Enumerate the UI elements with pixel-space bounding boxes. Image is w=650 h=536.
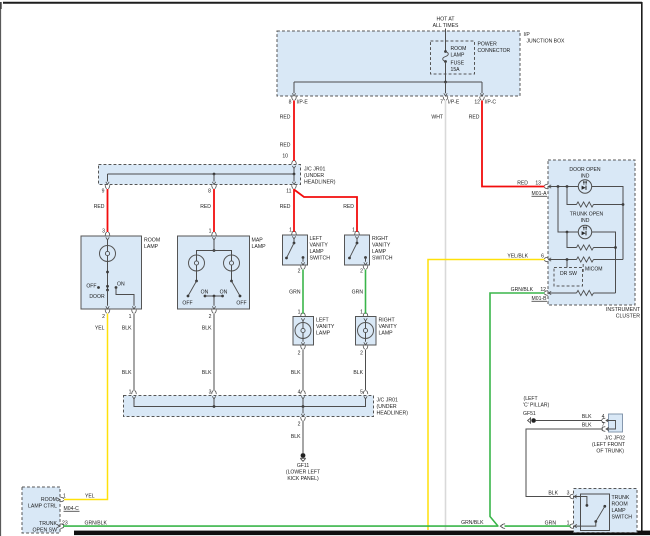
wire: pin 13 feed line xyxy=(549,186,579,188)
junction dot inside room lamp xyxy=(106,271,109,274)
svg-text:I/P: I/P xyxy=(524,32,531,38)
wire: junction A down to trunk row xyxy=(558,187,578,233)
pin 1 of right vanity lamp xyxy=(360,310,368,322)
wire BLK: map lamp pin 2 to lower JR01 pin 3 xyxy=(213,314,215,391)
wire BLK: lower JR01 pin 2 to ground GF11 xyxy=(302,421,304,453)
wire: pin10 stub xyxy=(293,169,295,175)
svg-text:RIGHT: RIGHT xyxy=(379,318,396,324)
pin 13 of instrument cluster xyxy=(535,181,551,189)
svg-text:HEADLINER): HEADLINER) xyxy=(377,411,409,417)
svg-text:RIGHT: RIGHT xyxy=(372,236,389,242)
svg-text:INSTRUMENT: INSTRUMENT xyxy=(606,307,641,313)
junction: fuse output node xyxy=(444,81,447,84)
svg-text:DOOR: DOOR xyxy=(89,294,105,300)
junction dot inside map lamp xyxy=(213,249,216,252)
svg-text:LEFT: LEFT xyxy=(310,236,324,242)
pin 1 of trunk room lamp switch xyxy=(567,521,577,529)
svg-text:SWITCH: SWITCH xyxy=(310,256,331,262)
svg-text:WHT: WHT xyxy=(431,115,443,121)
switch pivot dot left xyxy=(195,280,198,283)
svg-text:BLK: BLK xyxy=(548,491,558,497)
switch arm right (to OFF) xyxy=(232,281,241,296)
svg-text:3: 3 xyxy=(567,491,570,497)
svg-text:SWITCH: SWITCH xyxy=(612,515,633,521)
LED indicator TRUNK OPEN IND xyxy=(578,225,591,238)
svg-text:J/C JR01: J/C JR01 xyxy=(304,167,325,173)
pin 2 of lower JR01 xyxy=(298,414,306,428)
svg-text:OF TRUNK): OF TRUNK) xyxy=(596,449,624,455)
wire RED: I/P-E 8 to J/C JR01 pin 10 xyxy=(293,101,295,162)
wire: JR01 drop to pin 8 xyxy=(213,174,215,182)
pin 2 of left vanity lamp switch xyxy=(298,262,306,274)
svg-text:BLK: BLK xyxy=(291,434,301,440)
junction dot common xyxy=(213,295,216,298)
svg-text:1: 1 xyxy=(567,521,570,527)
TRUNK OPEN SW label xyxy=(33,521,58,534)
pin 1 of right vanity lamp switch xyxy=(352,228,359,240)
svg-text:BLK: BLK xyxy=(582,414,592,420)
svg-text:LAMP: LAMP xyxy=(310,249,325,255)
svg-text:MAP: MAP xyxy=(252,238,264,244)
svg-text:JUNCTION BOX: JUNCTION BOX xyxy=(527,39,566,45)
contact OFF of room lamp switch xyxy=(97,286,100,289)
lamp bulb of left vanity lamp xyxy=(295,321,311,342)
trunk room lamp switch outer box xyxy=(574,489,638,533)
contact ON left xyxy=(204,295,207,298)
wire: pin 6 row xyxy=(549,259,577,261)
lamp bulb right of map lamp xyxy=(224,255,240,271)
room lamp label xyxy=(144,238,160,251)
svg-text:J/C JR01: J/C JR01 xyxy=(377,398,398,404)
svg-text:3: 3 xyxy=(102,229,105,235)
pin 4 of J/C JF02 xyxy=(602,414,609,423)
wire RED: I/P-C 12 to instrument cluster pin 13 xyxy=(482,101,545,187)
ETACS module box (room lamp ctrl) xyxy=(22,487,60,533)
wire: JR01 internal bus xyxy=(108,173,295,175)
wire: pin 12 row xyxy=(549,292,577,294)
svg-text:DOOR OPEN: DOOR OPEN xyxy=(569,167,600,173)
svg-text:GRN: GRN xyxy=(545,521,557,527)
svg-text:ROOM: ROOM xyxy=(612,502,628,508)
svg-text:2: 2 xyxy=(360,269,363,275)
svg-text:TRUNK: TRUNK xyxy=(39,521,57,527)
switch S2 of right vanity switch xyxy=(348,239,367,262)
pin 9 of J/C JR01 xyxy=(102,182,110,195)
junction dot A xyxy=(557,185,560,188)
svg-text:2: 2 xyxy=(298,422,301,428)
J/C JR01 lower label xyxy=(377,398,409,417)
pin 8 I/P-E xyxy=(289,93,309,105)
wire: room lamp internal feed xyxy=(107,240,109,247)
svg-text:I/P-E: I/P-E xyxy=(297,100,309,106)
svg-text:BLK: BLK xyxy=(291,370,301,376)
left vanity lamp switch box xyxy=(283,235,308,265)
node HOT AT ALL TIMES xyxy=(433,17,459,30)
switch arm left (to OFF) xyxy=(188,281,197,296)
svg-text:4: 4 xyxy=(298,390,301,396)
svg-text:RED: RED xyxy=(200,204,211,210)
wire: DOOR LED output xyxy=(592,187,623,260)
svg-text:RED: RED xyxy=(517,181,528,187)
svg-text:BLK: BLK xyxy=(122,370,132,376)
connector name M01-B xyxy=(532,296,548,302)
ground GF51 label (LEFT 'C' PILLAR) xyxy=(523,396,550,417)
pin 10 of J/C JR01 xyxy=(282,154,296,169)
wire GRN: right vanity switch pin 2 to right vanity lamp pin 1 xyxy=(365,270,367,314)
trunk room lamp switch inner box xyxy=(581,494,610,531)
right vanity lamp switch box xyxy=(345,235,370,265)
connector name M01-A xyxy=(532,191,548,197)
svg-text:2: 2 xyxy=(209,314,212,320)
wire: junction box internal bus xyxy=(294,81,482,83)
svg-text:1: 1 xyxy=(129,314,132,320)
wire: pin 12 resistor to TRUNK branch xyxy=(594,292,616,294)
MICOM boundary dash xyxy=(582,264,584,272)
right vanity lamp switch label xyxy=(372,236,393,262)
wire RED: branch to right vanity lamp switch pin 1 xyxy=(294,190,357,233)
pin 11 of J/C JR01 xyxy=(286,182,296,195)
svg-text:LEFT: LEFT xyxy=(316,318,330,324)
J/C JR01 label xyxy=(304,167,336,186)
wire: hot feed into fuse xyxy=(445,29,447,52)
svg-text:TRUNK OPEN: TRUNK OPEN xyxy=(570,212,604,218)
resistor (pin 6 series) xyxy=(577,257,594,262)
inline connector joint on green wire xyxy=(500,524,505,529)
switch S3 of trunk room lamp switch xyxy=(574,497,606,527)
wire RED: JR01 pin 11 to left vanity lamp switch pin 1 xyxy=(293,189,295,232)
svg-text:CLUSTER: CLUSTER xyxy=(616,314,640,320)
svg-text:RED: RED xyxy=(280,143,291,149)
junction dot DOOR right xyxy=(622,203,625,206)
pin 7 of J/C JF02 xyxy=(602,423,609,432)
svg-text:ROOM: ROOM xyxy=(451,46,467,52)
junction dot on JR01 bus xyxy=(213,173,216,176)
svg-text:1: 1 xyxy=(289,228,292,234)
junction connector J/C JR01 (UNDER HEADLINER) xyxy=(99,165,301,185)
label DOOR OPEN IND xyxy=(569,167,600,180)
wire: map lamp feed xyxy=(213,240,215,251)
ground GF11 (LOWER LEFT KICK PANEL) xyxy=(300,453,306,461)
wire: DOOR contact to pin 2 xyxy=(107,290,109,306)
junction dot on lower bus at pin 4 xyxy=(302,405,305,408)
switch pivot dot right xyxy=(230,280,233,283)
wire: TRUNK LED output xyxy=(592,232,616,293)
svg-text:GRN: GRN xyxy=(289,290,301,296)
pin 6 of instrument cluster xyxy=(541,254,551,262)
instrument cluster box xyxy=(548,160,635,305)
svg-text:VANITY: VANITY xyxy=(372,243,391,249)
switch contact dots (DOOR position) xyxy=(106,285,109,288)
svg-text:8: 8 xyxy=(289,100,292,106)
svg-text:SWITCH: SWITCH xyxy=(372,256,393,262)
svg-text:POWER: POWER xyxy=(478,42,498,48)
svg-text:GRN: GRN xyxy=(352,290,364,296)
svg-text:VANITY: VANITY xyxy=(310,243,329,249)
pin 2 of map lamp xyxy=(209,306,217,320)
lamp bulb left of map lamp xyxy=(189,255,205,271)
junction dot on lower bus xyxy=(213,405,216,408)
junction connector J/C JR01 (UNDER HEADLINER) lower xyxy=(124,396,374,417)
svg-text:LAMP: LAMP xyxy=(144,244,159,250)
left vanity lamp switch label xyxy=(310,236,331,262)
svg-text:2: 2 xyxy=(298,269,301,275)
svg-text:OFF: OFF xyxy=(236,301,246,307)
svg-text:9: 9 xyxy=(102,189,105,195)
svg-text:BLK: BLK xyxy=(202,326,212,332)
svg-text:HOT AT: HOT AT xyxy=(437,17,455,23)
svg-text:RED: RED xyxy=(280,115,291,121)
wire BLK: right vanity lamp pin 2 to lower JR01 pin 5 xyxy=(365,350,367,391)
svg-text:BLK: BLK xyxy=(582,423,592,429)
pin 1 of room lamp ctrl (M04-C) xyxy=(57,494,66,502)
svg-text:1: 1 xyxy=(63,494,66,500)
wire RED: JR01 pin 9 to room lamp pin 3 xyxy=(107,189,109,232)
pin 4 of lower JR01 xyxy=(298,390,306,400)
DR SW box xyxy=(554,268,583,287)
svg-text:I/P-C: I/P-C xyxy=(485,100,497,106)
pin 5 of lower JR01 xyxy=(360,390,368,400)
power connector box xyxy=(431,41,475,74)
svg-text:6: 6 xyxy=(541,254,544,260)
svg-text:LAMP: LAMP xyxy=(612,508,627,514)
svg-text:2: 2 xyxy=(360,351,363,357)
svg-text:LAMP: LAMP xyxy=(316,331,331,337)
svg-text:'C' PILLAR): 'C' PILLAR) xyxy=(523,403,550,409)
pin 8 of J/C JR01 xyxy=(208,182,216,195)
svg-text:12: 12 xyxy=(474,100,480,106)
wire GRN: inline connector to trunk room lamp switch pin 1 xyxy=(505,525,571,527)
wire: lower JR01 internal bus xyxy=(134,399,366,407)
svg-text:RED: RED xyxy=(94,204,105,210)
wire: room lamp internal to switch xyxy=(107,261,109,290)
trunk room lamp switch label xyxy=(612,495,633,521)
resistor (DOOR OPEN IND shunt) xyxy=(577,202,594,207)
ROOM LAMP CTRL label xyxy=(28,497,57,510)
svg-text:MICOM: MICOM xyxy=(585,267,603,273)
svg-text:CONNECTOR: CONNECTOR xyxy=(478,48,511,54)
map lamp box xyxy=(178,236,250,309)
svg-text:YEL: YEL xyxy=(85,494,95,500)
resistor (pin 12 series) xyxy=(577,290,594,295)
wire: JF02 internal jumper pins 4-7 xyxy=(606,421,616,430)
svg-text:ON: ON xyxy=(220,290,228,296)
pin 2 of room lamp xyxy=(102,306,110,320)
wire: branch to DOOR resistor xyxy=(567,187,577,205)
left vanity lamp box xyxy=(293,317,314,346)
wire BLK: JF02 pin 7 to trunk room lamp switch pin 3 xyxy=(526,429,603,497)
svg-text:2: 2 xyxy=(298,351,301,357)
svg-text:J/C JF02: J/C JF02 xyxy=(605,436,626,442)
ground GF11 label xyxy=(286,463,320,482)
pin 3 of lower JR01 xyxy=(209,390,217,400)
wire WHT: I/P-E 7 down to bottom xyxy=(445,101,447,531)
wire: branch to both bulbs xyxy=(197,251,232,256)
fuse F: ROOM LAMP FUSE 15A xyxy=(443,50,449,82)
svg-text:BLK: BLK xyxy=(353,370,363,376)
pin 3 of room lamp xyxy=(102,229,110,241)
fuse value label: ROOM LAMP FUSE 15A xyxy=(451,46,467,73)
svg-text:OFF: OFF xyxy=(86,284,96,290)
svg-text:(UNDER: (UNDER xyxy=(304,173,324,179)
contact ON of room lamp switch xyxy=(115,286,118,289)
svg-text:13: 13 xyxy=(535,181,541,187)
wire: JR01 drop to pin 9 xyxy=(107,174,109,182)
wire: pin3 stub xyxy=(213,399,215,407)
wire: ON contacts common xyxy=(205,295,223,297)
wire: left bulb to switch pivot xyxy=(196,271,198,281)
svg-text:12: 12 xyxy=(540,287,546,293)
svg-text:YEL/BLK: YEL/BLK xyxy=(507,254,528,260)
right vanity lamp box xyxy=(356,317,377,346)
svg-text:I/P-E: I/P-E xyxy=(448,100,460,106)
svg-text:TRUNK: TRUNK xyxy=(612,495,630,501)
pin 23 of trunk open sw xyxy=(57,521,68,529)
svg-text:10: 10 xyxy=(282,154,288,160)
svg-text:1: 1 xyxy=(298,310,301,316)
pin 1 of lower JR01 xyxy=(129,390,137,400)
pin 1 of map lamp xyxy=(209,229,217,241)
svg-text:1: 1 xyxy=(209,229,212,235)
svg-text:1: 1 xyxy=(129,390,132,396)
svg-text:IND: IND xyxy=(581,218,590,224)
svg-text:8: 8 xyxy=(208,189,211,195)
wire: DOOR resistor output xyxy=(594,204,624,206)
wire GRN/BLK: cluster pin 12 down to trunk harness xyxy=(490,293,545,526)
instrument cluster label xyxy=(606,307,641,320)
svg-text:IND: IND xyxy=(581,174,590,180)
svg-text:ON: ON xyxy=(201,290,209,296)
svg-text:2: 2 xyxy=(102,314,105,320)
pin 2 of right vanity lamp switch xyxy=(360,262,368,274)
svg-text:15A: 15A xyxy=(451,67,461,73)
contact ON right xyxy=(221,295,224,298)
svg-text:GRN/BLK: GRN/BLK xyxy=(511,287,534,293)
I/P junction box xyxy=(277,31,520,96)
svg-text:OPEN SW: OPEN SW xyxy=(33,528,58,534)
svg-text:GRN/BLK: GRN/BLK xyxy=(461,520,484,526)
pin 2 of left vanity lamp xyxy=(298,342,306,356)
lamp bulb of right vanity lamp xyxy=(358,321,374,342)
junction dot on JR01 bus at pin10 xyxy=(293,173,296,176)
wire: common to pin 2 xyxy=(213,296,215,306)
svg-text:BLK: BLK xyxy=(122,326,132,332)
connector name M04-C xyxy=(64,506,80,512)
junction dot TRUNK right xyxy=(614,246,617,249)
LED indicator DOOR OPEN IND xyxy=(578,180,591,193)
svg-text:LAMP: LAMP xyxy=(451,53,465,59)
svg-text:5: 5 xyxy=(360,390,363,396)
pin 1 of left vanity lamp xyxy=(298,310,306,322)
svg-text:DR SW: DR SW xyxy=(560,271,577,277)
wire: drop to pin 7 I/P-E xyxy=(445,82,447,93)
pin 1 of left vanity lamp switch xyxy=(289,228,296,240)
svg-text:OFF: OFF xyxy=(182,301,192,307)
lamp bulb of room lamp xyxy=(100,246,116,262)
svg-text:HEADLINER): HEADLINER) xyxy=(304,180,336,186)
svg-text:LAMP: LAMP xyxy=(379,331,394,337)
svg-text:(LEFT: (LEFT xyxy=(524,396,538,402)
left vanity lamp label xyxy=(316,318,335,337)
wire RED: JR01 pin 8 to map lamp pin 1 xyxy=(213,189,215,232)
pin 3 of trunk room lamp switch xyxy=(567,491,577,499)
svg-text:1: 1 xyxy=(352,228,355,234)
wire GRN/BLK: trunk open sw pin 23 to inline connector xyxy=(63,525,499,527)
svg-text:LAMP: LAMP xyxy=(372,249,387,255)
I/P junction box label xyxy=(524,32,566,45)
svg-text:YEL: YEL xyxy=(95,326,105,332)
right vanity lamp label xyxy=(379,318,398,337)
svg-text:GF51: GF51 xyxy=(523,411,536,417)
wire YEL: room lamp pin 2 to room lamp ctrl pin 1 xyxy=(64,314,108,500)
svg-text:7: 7 xyxy=(440,100,443,106)
resistor (TRUNK OPEN IND shunt) xyxy=(577,245,594,250)
wire: JR01 drop to pin 11 xyxy=(293,174,295,182)
wire BLK: left vanity lamp pin 2 to lower JR01 pin 4 xyxy=(302,350,304,391)
wire BLK: GF51 to J/C JF02 pin 4 xyxy=(536,420,602,422)
svg-text:ALL TIMES: ALL TIMES xyxy=(433,23,459,29)
svg-text:VANITY: VANITY xyxy=(316,324,335,330)
junction dot B xyxy=(566,185,569,188)
svg-text:LAMP CTRL: LAMP CTRL xyxy=(28,504,57,510)
svg-text:ROOM: ROOM xyxy=(144,238,160,244)
J/C JF02 label xyxy=(592,436,625,455)
wire YEL/BLK: cluster pin 6 to bottom xyxy=(428,260,545,531)
pin 12 of instrument cluster xyxy=(540,287,551,295)
svg-text:ROOM: ROOM xyxy=(41,497,57,503)
svg-text:GF11: GF11 xyxy=(297,463,310,469)
svg-text:LAMP: LAMP xyxy=(252,244,267,250)
wire: drop to pin 12 I/P-C xyxy=(481,82,483,93)
svg-text:3: 3 xyxy=(209,390,212,396)
wire: pin 6 resistor to DOOR branch xyxy=(594,259,624,261)
svg-text:(UNDER: (UNDER xyxy=(377,404,397,410)
svg-text:FUSE: FUSE xyxy=(451,61,465,67)
svg-text:BLK: BLK xyxy=(202,370,212,376)
svg-text:11: 11 xyxy=(286,189,291,195)
J/C JF02 box xyxy=(609,414,623,432)
svg-text:RED: RED xyxy=(280,204,291,210)
wire: ON contact to pin 1 xyxy=(116,288,134,306)
svg-text:KICK PANEL): KICK PANEL) xyxy=(287,476,319,482)
wire: drop to pin 8 I/P-E xyxy=(293,82,295,93)
svg-text:1: 1 xyxy=(360,310,363,316)
svg-text:ON: ON xyxy=(117,282,125,288)
pin 2 of right vanity lamp xyxy=(360,342,368,356)
svg-text:(LEFT FRONT: (LEFT FRONT xyxy=(592,442,625,448)
svg-text:VANITY: VANITY xyxy=(379,324,398,330)
map lamp label xyxy=(252,238,267,251)
wire: pin4 stub xyxy=(302,399,304,407)
pin 1 of room lamp xyxy=(129,306,137,320)
wire: TRUNK resistor output xyxy=(594,247,616,249)
ground GF51 symbol xyxy=(528,417,536,423)
junction dot trunk row xyxy=(566,231,569,234)
wire: branch to TRUNK resistor xyxy=(567,232,577,248)
wire: right bulb to switch pivot xyxy=(231,271,233,281)
svg-text:RED: RED xyxy=(469,115,480,121)
label TRUNK OPEN IND xyxy=(570,212,604,225)
svg-text:(LOWER LEFT: (LOWER LEFT xyxy=(286,470,320,476)
pin 12 I/P-C xyxy=(474,93,496,105)
room lamp box xyxy=(81,236,142,309)
pin 7 I/P-E xyxy=(440,93,460,105)
svg-text:RED: RED xyxy=(343,204,354,210)
wire: bus to pin 2 xyxy=(302,407,304,414)
junction dot pin6 row xyxy=(566,258,569,261)
wire GRN: left vanity switch pin 2 to left vanity lamp pin 1 xyxy=(302,270,304,314)
wire: DR SW stub xyxy=(566,260,568,268)
contact OFF left xyxy=(187,295,190,298)
